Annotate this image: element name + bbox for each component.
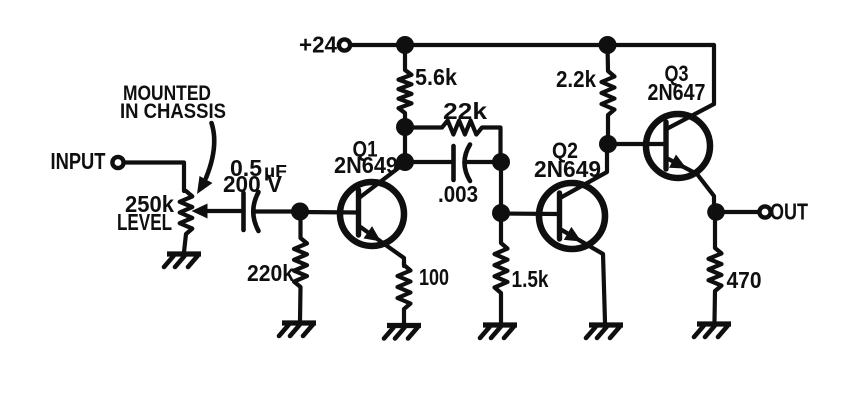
svg-text:200 V: 200 V: [223, 171, 283, 197]
node junction on rail at 2.2k top: [599, 36, 617, 54]
transistor Q3 2N647: [646, 104, 714, 207]
potentiometer 250k LEVEL: [117, 191, 243, 252]
label INPUT: [51, 148, 106, 174]
svg-text:IN CHASSIS: IN CHASSIS: [120, 99, 226, 123]
resistor 470: [709, 219, 762, 321]
svg-text:100: 100: [419, 264, 449, 290]
node Q2 base junction: [492, 204, 510, 222]
svg-text:LEVEL: LEVEL: [117, 209, 172, 235]
arrow from chassis note to potentiometer: [197, 123, 214, 194]
label OUT: [770, 199, 808, 225]
svg-text:+24: +24: [299, 32, 337, 58]
node junction .003 right / 22k right: [492, 153, 510, 171]
capacitor .003: [405, 145, 501, 208]
node junction on rail at 5.6k top: [396, 36, 414, 54]
svg-text:INPUT: INPUT: [51, 148, 106, 174]
resistor 2.2k: [556, 45, 615, 144]
ground at potentiometer: [164, 254, 201, 267]
ground at 220k: [279, 323, 316, 336]
resistor 1.5k: [495, 213, 549, 322]
wire +24 supply rail with corner down to Q3 collector: [351, 45, 715, 104]
wire Q1 base: [300, 210, 358, 215]
input terminal: [112, 157, 123, 168]
svg-text:2N647: 2N647: [648, 79, 706, 105]
svg-text:.003: .003: [438, 181, 478, 207]
wire from 5.6k/22k node down to Q1 collector node: [403, 127, 407, 162]
label 2N649 (Q2): [534, 156, 601, 182]
label 2N649 (Q1): [334, 152, 398, 178]
ground at 100: [384, 326, 421, 339]
transistor Q1 2N649: [340, 163, 405, 266]
svg-text:470: 470: [727, 267, 762, 293]
output terminal: [759, 206, 770, 217]
label 2N647 (Q3): [648, 79, 706, 105]
label Q1: [353, 137, 378, 162]
resistor 5.6k: [399, 45, 458, 127]
wire coupling node down to Q2 base node: [499, 162, 503, 213]
label MOUNTED IN CHASSIS: [120, 81, 226, 123]
node OUT junction: [707, 203, 725, 221]
label Q2: [552, 138, 578, 163]
wire Q2 base: [501, 211, 559, 216]
resistor 100: [398, 262, 450, 323]
node Q3 base junction: [599, 135, 617, 153]
svg-text:2.2k: 2.2k: [556, 66, 596, 92]
svg-text:22k: 22k: [443, 98, 487, 124]
svg-text:OUT: OUT: [770, 199, 808, 225]
capacitor 0.5uF 200V: [223, 155, 300, 231]
node junction 5.6k bottom / 22k left: [396, 118, 414, 136]
label Q3: [665, 61, 689, 86]
ground at Q2 emitter: [586, 325, 623, 338]
wire to output terminal: [722, 210, 759, 214]
wire input to potentiometer top: [124, 163, 184, 192]
node input coupling junction: [291, 203, 309, 221]
resistor 220k: [247, 211, 307, 321]
power terminal +24: [299, 32, 350, 58]
wire Q3 base: [608, 142, 666, 146]
svg-text:220k: 220k: [247, 260, 294, 286]
svg-text:5.6k: 5.6k: [415, 64, 457, 90]
svg-text:2N649: 2N649: [534, 156, 601, 182]
resistor 22k with corner down to coupling node: [405, 98, 501, 160]
ground at 470: [694, 324, 731, 337]
ground at 1.5k: [480, 325, 517, 338]
node Q1 collector junction: [396, 153, 414, 171]
transistor Q2 2N649: [539, 146, 607, 322]
svg-text:1.5k: 1.5k: [512, 266, 549, 292]
